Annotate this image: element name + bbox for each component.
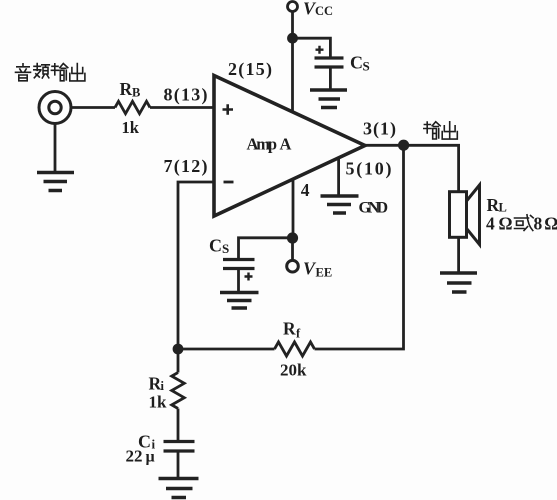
wire speaker to ground — [457, 238, 460, 273]
glyph 或 — [515, 215, 534, 231]
wire output node to speaker — [404, 145, 459, 191]
svg-text:CC: CC — [315, 4, 333, 18]
resistor RB 1k — [115, 101, 150, 113]
connector J1 audio input jack — [39, 92, 71, 124]
ground CS2 — [220, 293, 259, 309]
wire node down to Ri — [177, 349, 180, 373]
node output junction — [398, 140, 409, 151]
svg-text:1k: 1k — [122, 118, 140, 137]
wire Ri to Ci — [177, 409, 180, 441]
wire input jack to RB — [71, 106, 115, 109]
ground jack — [37, 124, 74, 191]
svg-text:22: 22 — [126, 447, 143, 466]
svg-text:GND: GND — [359, 199, 389, 216]
wire op-amp output to node — [365, 144, 404, 147]
wire node to CS1 — [293, 38, 331, 56]
svg-text:2(15): 2(15) — [228, 59, 272, 80]
ground CS1 — [310, 90, 347, 108]
svg-text:1k: 1k — [149, 393, 168, 412]
resistor Rf 20k — [275, 342, 315, 356]
svg-text:f: f — [296, 327, 301, 341]
svg-text:i: i — [161, 379, 165, 393]
capacitor Ci 22u — [164, 442, 195, 452]
ground Ci — [159, 479, 199, 498]
svg-text:4: 4 — [301, 180, 310, 200]
svg-text:A: A — [280, 135, 292, 154]
op-amp U1 Amp A — [214, 76, 365, 217]
node VCC junction — [287, 33, 298, 44]
svg-text:R: R — [120, 79, 133, 99]
ground GND pin5 — [321, 196, 359, 213]
label 音频输出 (audio output) — [16, 64, 85, 81]
svg-text:Ω: Ω — [499, 214, 513, 234]
label 输出 (output) — [424, 122, 458, 139]
capacitor CS1 — [315, 58, 344, 67]
op-amp - symbol — [224, 181, 234, 184]
wire VCC node down to op-amp pin 2 — [291, 38, 294, 112]
terminal VCC — [288, 2, 298, 12]
svg-text:C: C — [209, 236, 222, 256]
wire CS2 to ground — [237, 270, 240, 291]
wire Rf to output node — [315, 145, 404, 349]
svg-text:R: R — [283, 319, 296, 339]
svg-text:S: S — [363, 59, 370, 74]
svg-text:4: 4 — [486, 214, 495, 234]
svg-text:B: B — [132, 86, 140, 100]
capacitor CS2 — [223, 260, 255, 269]
resistor Ri 1k — [172, 373, 185, 409]
wire node to VEE terminal — [291, 238, 294, 260]
svg-text:20k: 20k — [280, 361, 307, 380]
svg-text:8(13): 8(13) — [164, 85, 208, 106]
svg-text:Amp: Amp — [247, 135, 278, 154]
polarity + for CS1 — [316, 46, 324, 54]
svg-text:EE: EE — [316, 266, 333, 280]
wire VCC down to node — [291, 12, 294, 39]
svg-text:7(12): 7(12) — [164, 156, 208, 177]
wire pin 5 to GND — [337, 157, 340, 196]
svg-text:Ω: Ω — [544, 214, 557, 234]
svg-text:S: S — [222, 241, 229, 256]
svg-text:µ: µ — [146, 449, 155, 466]
node feedback junction — [173, 344, 184, 355]
svg-text:8: 8 — [534, 214, 543, 234]
wire node to Rf — [178, 348, 275, 351]
node VEE junction — [287, 232, 298, 243]
wire pin 4 to VEE node — [292, 178, 295, 238]
svg-text:5(10): 5(10) — [346, 159, 392, 180]
ground speaker — [440, 273, 477, 292]
svg-text:3(1): 3(1) — [363, 119, 396, 140]
wire op-amp inverting input pin 7 — [178, 182, 214, 349]
speaker RL — [450, 185, 480, 245]
op-amp + symbol — [223, 104, 234, 114]
wire RB to op-amp + input, pin 8(13) — [150, 106, 213, 109]
svg-text:L: L — [499, 201, 507, 215]
wire node to CS2 — [239, 238, 293, 258]
polarity + for CS2 — [245, 273, 253, 281]
wire CS1 to ground — [329, 69, 332, 89]
terminal VEE — [287, 260, 299, 272]
svg-text:C: C — [350, 53, 363, 73]
wire Ci to ground — [177, 453, 180, 478]
